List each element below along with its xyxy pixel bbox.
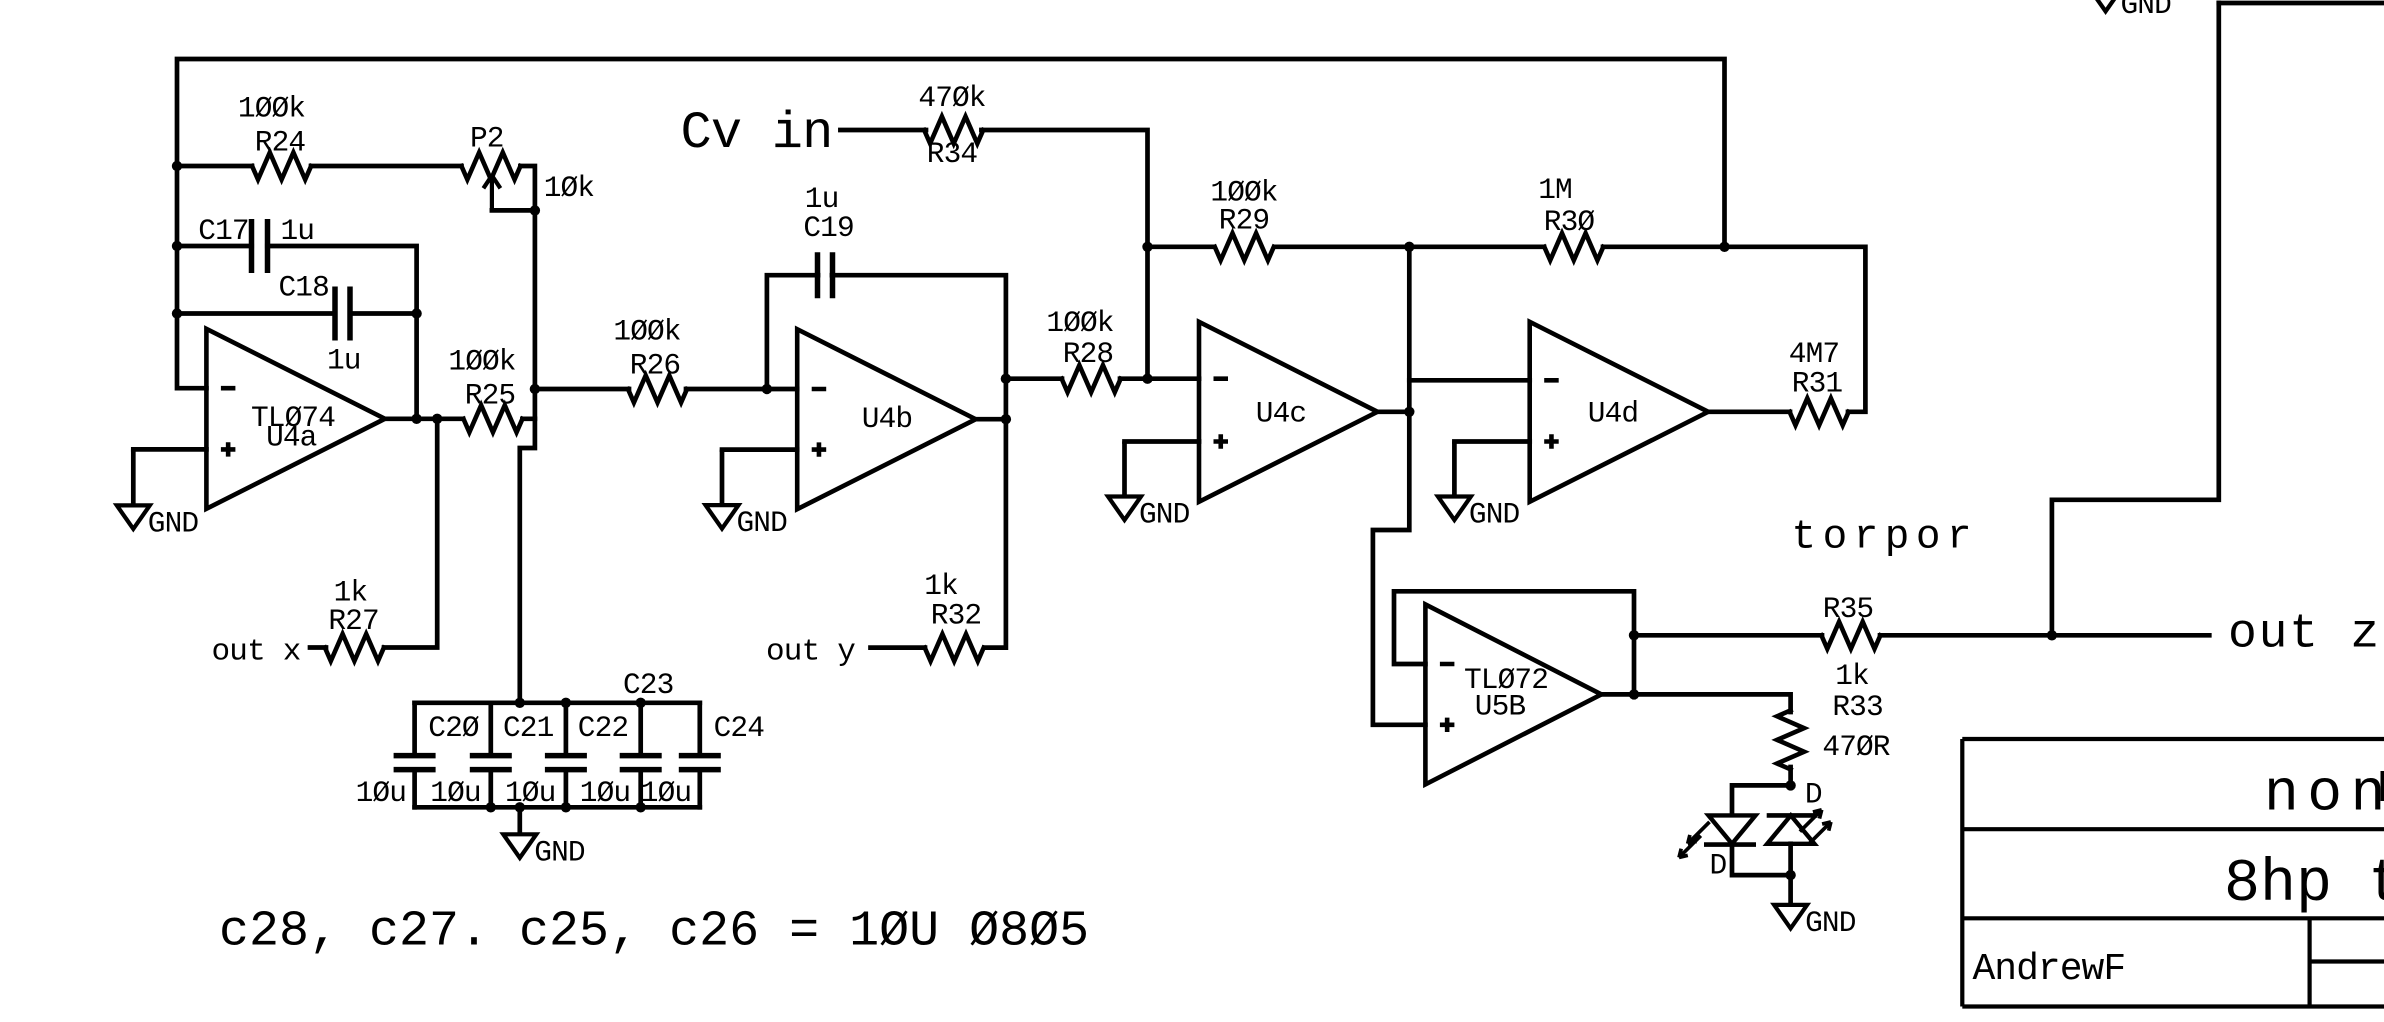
wire LED left branch top <box>1732 785 1791 815</box>
svg-text:8hp t: 8hp t <box>2224 851 2384 919</box>
node R30/R31 feedback junction <box>1719 242 1729 252</box>
svg-text:C22: C22 <box>578 711 628 745</box>
wire P2 wiper to right terminal <box>492 208 535 213</box>
svg-text:GND: GND <box>148 506 199 540</box>
wire U4d non-inverting input <box>1454 439 1529 444</box>
node cap bottom junctions <box>486 802 496 812</box>
svg-text:U4c: U4c <box>1256 397 1306 431</box>
LED D left arrows <box>1679 822 1710 858</box>
svg-text:1M: 1M <box>1538 173 1572 207</box>
wire Cv in to R34 <box>840 128 926 133</box>
resistor R30 <box>1544 233 1603 260</box>
svg-text:R26: R26 <box>630 349 680 383</box>
resistor R31 <box>1790 398 1849 425</box>
svg-text:1Øu: 1Øu <box>580 776 630 810</box>
wire U4c non-inverting input <box>1125 439 1200 444</box>
node R28 branch junction <box>1001 374 1011 384</box>
wire U4d output to R31 <box>1708 409 1790 414</box>
svg-text:1Øu: 1Øu <box>641 776 691 810</box>
svg-text:47ØR: 47ØR <box>1822 730 1889 764</box>
wire right vertical to out z <box>2052 3 2219 635</box>
svg-text:1Øu: 1Øu <box>505 776 555 810</box>
wire R27 to output node <box>384 419 437 648</box>
op-amp U4a triangle <box>206 329 385 509</box>
node C19 branch junction <box>762 384 772 394</box>
node out z junction <box>2047 630 2057 640</box>
resistor R25 <box>463 405 522 432</box>
resistor R33 <box>1777 710 1804 769</box>
wire R26 left <box>535 387 629 392</box>
node R29/R30 junction <box>1404 242 1414 252</box>
capacitor C20 <box>412 703 417 756</box>
ground GND below capacitor bank <box>517 807 522 834</box>
svg-text:1u: 1u <box>281 214 315 248</box>
wire out y to R32 <box>871 645 926 650</box>
node R29 branch from Cv net <box>1142 242 1152 252</box>
wire R30 left <box>1409 244 1544 249</box>
svg-text:U4b: U4b <box>862 402 912 436</box>
ground GND at U4a <box>131 449 136 505</box>
LED D right (cathode up) <box>1767 813 1818 818</box>
svg-text:D: D <box>1710 849 1727 883</box>
wire R29 right <box>1275 244 1409 249</box>
wire R34 right down to R29 node <box>981 130 1147 379</box>
svg-text:U4d: U4d <box>1588 397 1638 431</box>
svg-text:C18: C18 <box>279 271 329 305</box>
svg-text:1Øu: 1Øu <box>356 776 406 810</box>
op-amp U4d input polarity marks <box>1544 380 1559 448</box>
svg-text:P2: P2 <box>470 122 504 156</box>
capacitor C23 <box>638 703 643 756</box>
node Cv-net to R28 junction <box>1142 374 1152 384</box>
wire out x to R27 <box>310 645 326 650</box>
svg-text:R25: R25 <box>465 378 515 412</box>
svg-text:non: non <box>2264 763 2384 828</box>
node R26 branch junction <box>530 384 540 394</box>
svg-text:R24: R24 <box>255 126 306 160</box>
title block frame <box>1962 739 2384 1007</box>
resistor R32 <box>925 634 984 661</box>
op-amp U4a input polarity marks <box>221 388 236 456</box>
wire U4b non-inverting input <box>722 447 797 452</box>
op-amp U4b input polarity marks <box>812 389 827 457</box>
svg-text:out x: out x <box>212 635 301 670</box>
svg-text:GND: GND <box>2121 0 2172 22</box>
svg-text:out z: out z <box>2228 608 2381 662</box>
wire R24 left <box>177 164 252 169</box>
op-amp U4b triangle <box>797 329 976 509</box>
op-amp U4c input polarity marks <box>1214 379 1229 449</box>
ground GND below LEDs <box>1788 875 1793 905</box>
node LED bottom junction <box>1785 870 1795 880</box>
wire C19 left branch <box>767 275 818 389</box>
capacitor C17 <box>252 219 268 273</box>
node U4a inverting input junction (R24) <box>172 161 182 171</box>
wire U5B node to R35 <box>1634 633 1822 638</box>
svg-text:1k: 1k <box>1835 659 1869 693</box>
svg-text:R28: R28 <box>1063 337 1113 371</box>
svg-text:U4a: U4a <box>266 421 317 455</box>
svg-text:out y: out y <box>766 635 855 670</box>
trimmer potentiometer P2 <box>461 153 520 180</box>
svg-text:1ØØk: 1ØØk <box>613 315 680 349</box>
svg-text:R33: R33 <box>1832 690 1882 724</box>
op-amp U5B triangle <box>1425 604 1601 784</box>
wire C18 node down to U4a output row <box>414 314 419 419</box>
capacitor C21 <box>488 703 493 756</box>
svg-text:C23: C23 <box>623 668 673 702</box>
wire U4a non-inverting input <box>133 447 206 452</box>
node cap bank feed junction <box>515 698 525 708</box>
ground GND at U4b <box>720 450 725 506</box>
svg-text:R34: R34 <box>927 137 978 171</box>
svg-text:c28, c27. c25, c26 = 1ØU Ø8Ø5: c28, c27. c25, c26 = 1ØU Ø8Ø5 <box>219 904 1089 961</box>
svg-text:torpor: torpor <box>1792 515 1979 561</box>
wire capacitor bank bottom bus <box>415 805 700 810</box>
svg-text:C17: C17 <box>198 214 248 248</box>
node junction C18 <box>172 308 182 318</box>
node C17/C18 junction <box>411 308 421 318</box>
svg-text:GND: GND <box>1805 906 1856 940</box>
svg-text:R27: R27 <box>328 604 378 638</box>
svg-text:1ØØk: 1ØØk <box>1046 306 1113 340</box>
wire R28 left <box>1006 376 1062 381</box>
LED D left (cathode down) <box>1709 815 1756 843</box>
wire R24 to P2 <box>311 164 462 169</box>
svg-text:R29: R29 <box>1219 203 1269 237</box>
wire U5B feedback down to output <box>1632 635 1637 694</box>
wire U4d inverting input tap <box>1409 378 1529 383</box>
capacitor C22 <box>564 703 569 756</box>
wire U4b output stub <box>976 417 1006 422</box>
wire out z stub <box>2052 633 2209 638</box>
svg-text:R3Ø: R3Ø <box>1544 205 1595 239</box>
svg-text:AndrewF: AndrewF <box>1973 948 2126 991</box>
node output-R27 junction <box>432 414 442 424</box>
wire R35 right to out z node <box>1880 633 2052 638</box>
wire R26-node down to R25 end and jog to capacitor bank <box>520 389 535 703</box>
ground GND at U4c <box>1122 442 1127 497</box>
resistor R35 <box>1821 622 1880 649</box>
svg-text:GND: GND <box>1139 498 1190 532</box>
svg-text:Cv in: Cv in <box>681 104 833 163</box>
wire top feedback net (U4d/R30 node to U4a input node) <box>177 59 1725 388</box>
wire R29 left <box>1148 244 1214 249</box>
resistor R24 <box>252 153 311 180</box>
wire top-right corner <box>2219 1 2384 6</box>
node cap top junctions <box>561 698 571 708</box>
svg-text:1Øk: 1Øk <box>544 171 595 205</box>
svg-text:D: D <box>1805 778 1822 812</box>
LED D right arrows <box>1800 810 1831 844</box>
resistor R27 <box>325 634 384 661</box>
node junction C17 <box>172 241 182 251</box>
wire P2 node down to R26 node <box>533 210 538 389</box>
svg-text:R35: R35 <box>1823 592 1873 626</box>
svg-text:U5B: U5B <box>1475 689 1526 723</box>
wire LED right branch bottom <box>1788 844 1793 875</box>
wire R26 right to U4b <box>686 387 797 392</box>
wire C18 left <box>177 311 335 316</box>
capacitor C19 <box>818 252 833 298</box>
ground GND top right (clipped) <box>2089 0 2122 11</box>
wire U5B output to R33 <box>1634 694 1791 712</box>
svg-text:1u: 1u <box>327 344 361 378</box>
wire R29 node down to U5B input <box>1373 247 1426 725</box>
wire U4b output down to R32 <box>984 419 1006 647</box>
capacitor C24 <box>697 703 702 756</box>
svg-text:C2Ø: C2Ø <box>428 711 479 745</box>
wire U4c output stub <box>1378 409 1410 414</box>
wire P2 right terminal down <box>520 166 535 210</box>
svg-text:1ØØk: 1ØØk <box>238 92 305 126</box>
wire C17 right to C18 node <box>267 246 416 314</box>
svg-text:1ØØk: 1ØØk <box>448 344 515 378</box>
wire capacitor bank top bus <box>415 700 700 705</box>
wire LED left branch bottom <box>1732 845 1791 876</box>
node output-C18 junction <box>411 414 421 424</box>
svg-text:C19: C19 <box>803 211 853 245</box>
op-amp U5B input polarity marks <box>1440 664 1455 732</box>
resistor R26 <box>628 376 687 403</box>
node LED top junction <box>1785 780 1795 790</box>
op-amp U4d triangle <box>1530 322 1709 502</box>
P2 wiper arrow <box>483 176 500 211</box>
wire R28 right to U4c <box>1120 376 1199 381</box>
svg-text:GND: GND <box>1469 498 1520 532</box>
svg-text:R32: R32 <box>931 599 981 633</box>
wire C18 right <box>350 311 417 316</box>
capacitor C18 <box>335 287 350 341</box>
resistor R29 <box>1215 233 1274 260</box>
node U4c output junction <box>1404 407 1414 417</box>
svg-text:GND: GND <box>737 506 788 540</box>
op-amp U4c triangle <box>1199 322 1378 502</box>
wire U4a output row <box>385 416 463 421</box>
resistor R34 <box>924 117 983 144</box>
svg-text:C24: C24 <box>714 711 765 745</box>
svg-text:47Øk: 47Øk <box>918 81 985 115</box>
node U5B feedback/R35 junction <box>1629 630 1639 640</box>
node U4b output junction <box>1001 414 1011 424</box>
wire R25 right to vertical <box>522 416 535 421</box>
svg-text:R31: R31 <box>1792 367 1843 401</box>
node U5B output junction <box>1629 689 1639 699</box>
wire R33 to LED node <box>1788 767 1793 785</box>
wire C17 left <box>177 244 252 249</box>
wire U5B output stub <box>1601 692 1634 697</box>
wire R31 to R30 node <box>1725 247 1866 412</box>
node P2 wiper junction <box>530 205 540 215</box>
svg-text:C21: C21 <box>503 711 554 745</box>
ground GND at U4d <box>1452 442 1457 497</box>
svg-text:GND: GND <box>534 835 585 869</box>
wire C19 right branch <box>832 275 1006 419</box>
svg-text:1Øu: 1Øu <box>430 776 480 810</box>
resistor R28 <box>1062 365 1121 392</box>
wire U5B feedback box <box>1394 591 1634 664</box>
wire R30 right to feedback node <box>1603 244 1725 249</box>
